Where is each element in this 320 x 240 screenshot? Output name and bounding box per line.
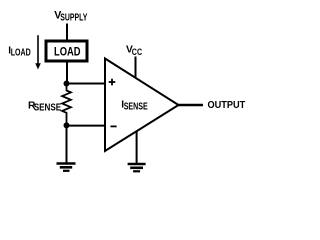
- svg-text:OUTPUT: OUTPUT: [208, 100, 246, 111]
- svg-text:CC: CC: [132, 47, 142, 58]
- ground center: [128, 164, 146, 171]
- node VSUPPLY label: [54, 9, 87, 23]
- svg-text:LOAD: LOAD: [54, 46, 81, 59]
- wire LOAD to node A: [66, 61, 68, 84]
- svg-text:LOAD: LOAD: [11, 47, 31, 58]
- load box LOAD: [46, 41, 87, 61]
- svg-text:SENSE: SENSE: [124, 102, 148, 113]
- wire node B to ground: [66, 125, 68, 163]
- wire node A to op-amp noninverting input: [67, 83, 107, 85]
- label ILOAD: [8, 45, 30, 58]
- current arrow ILOAD: [35, 35, 41, 69]
- junction node B: [64, 122, 70, 128]
- op-amp U1: [105, 59, 179, 152]
- ground left: [57, 164, 76, 171]
- wire op-amp to ground center: [136, 128, 138, 164]
- resistor RSENSE: [62, 84, 71, 123]
- svg-text:SENSE: SENSE: [34, 103, 62, 114]
- wire op-amp output: [178, 104, 204, 107]
- junction node A: [64, 81, 70, 87]
- svg-text:SUPPLY: SUPPLY: [60, 12, 87, 23]
- wire VCC to op-amp: [135, 57, 137, 82]
- op-amp minus sign: [111, 125, 117, 127]
- label RSENSE: [28, 100, 61, 113]
- wire VSUPPLY to LOAD: [66, 24, 68, 42]
- wire node B to op-amp inverting input: [67, 125, 107, 127]
- label VCC: [126, 44, 142, 58]
- label ISENSE: [121, 99, 148, 112]
- op-amp plus sign: [109, 79, 116, 86]
